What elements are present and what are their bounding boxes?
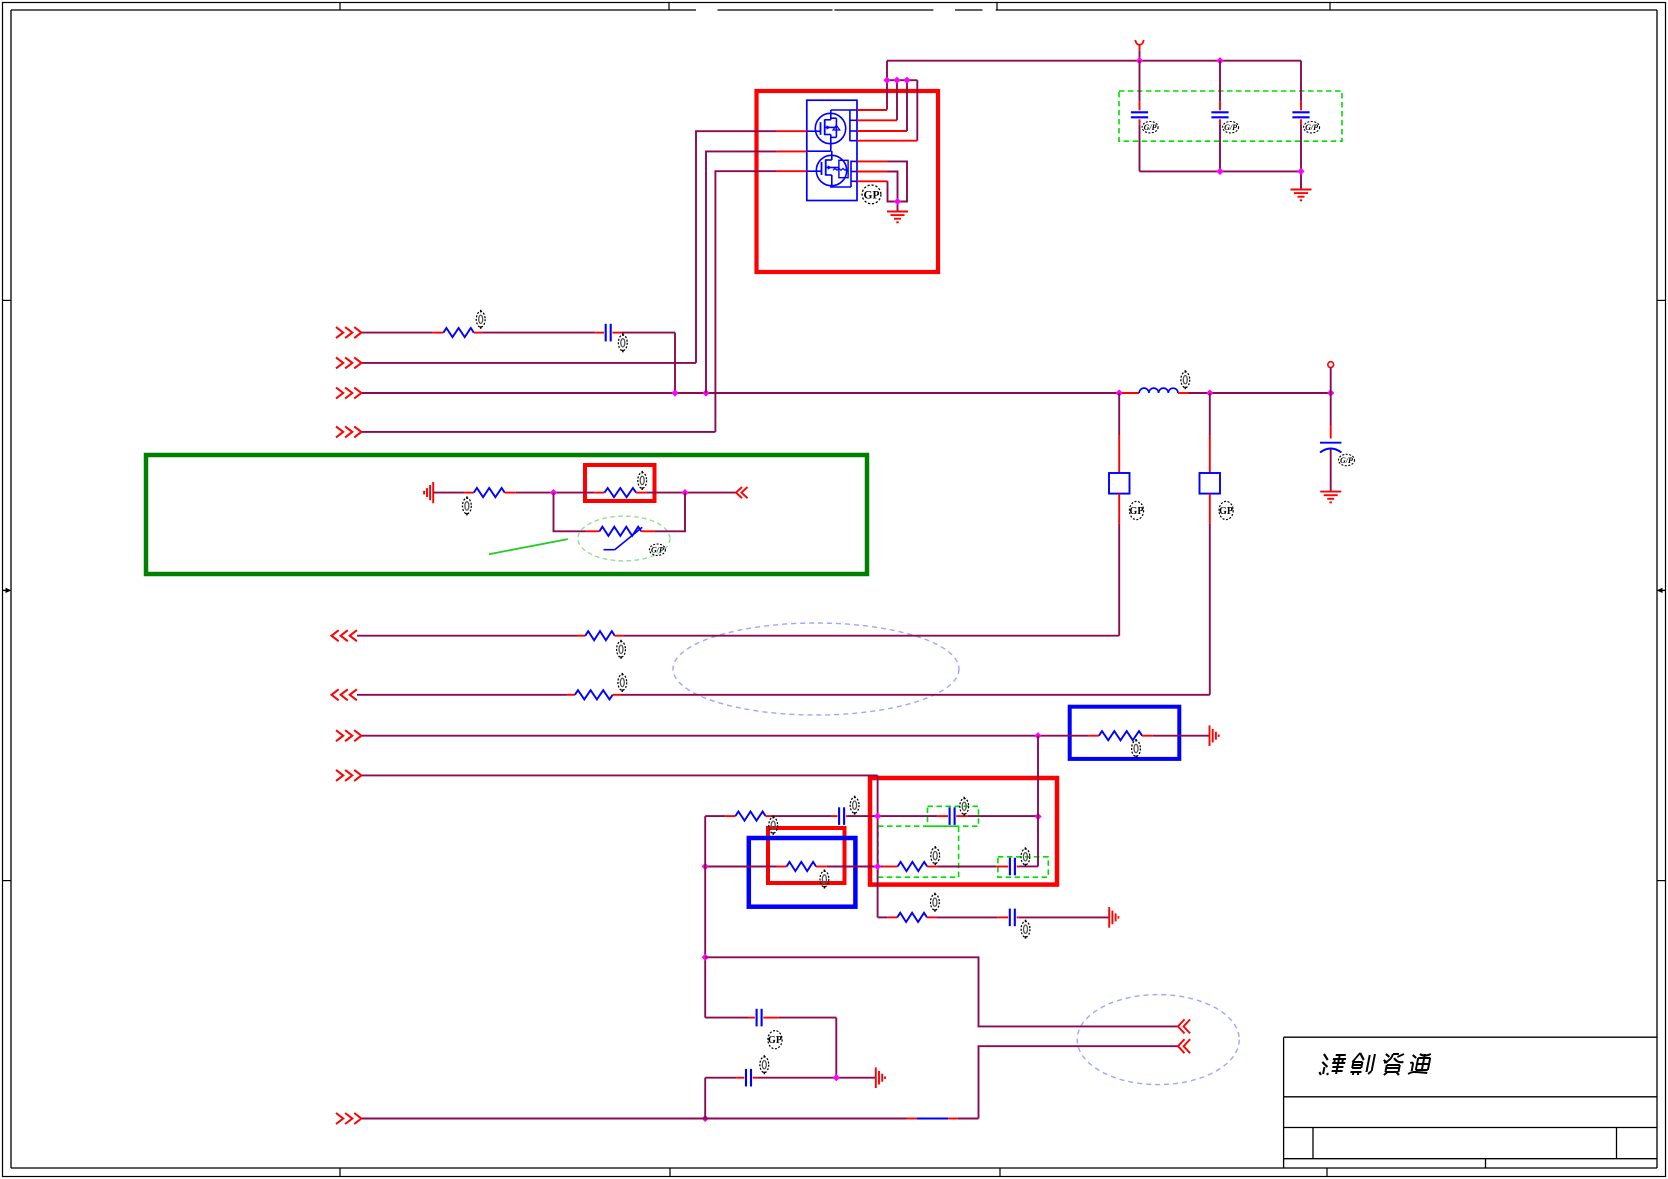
capacitor C3 (bulk)	[1292, 61, 1309, 172]
label C6	[850, 796, 859, 815]
label GP for F1	[1129, 501, 1143, 519]
capacitor C6	[831, 807, 848, 825]
svg-text:G/P: G/P	[1224, 123, 1237, 132]
label R4	[638, 471, 647, 490]
port arrow input row7	[336, 730, 361, 741]
wire row13 (y=1017)	[705, 1018, 836, 1078]
label C9	[1021, 920, 1030, 939]
ground (Q1 source)	[887, 212, 908, 223]
pin stubs right of Q1 lower	[857, 161, 888, 181]
node dot source	[894, 198, 901, 205]
node dots row10	[702, 863, 882, 870]
label R9	[820, 870, 829, 889]
resistor R4 (in red box)	[594, 488, 646, 497]
label C11	[760, 1055, 769, 1074]
node dots green row	[550, 489, 689, 496]
transistor Q1-A (upper mosfet)	[807, 110, 857, 152]
wire row3 right	[1189, 392, 1331, 394]
resistor R8	[725, 812, 771, 821]
node dot row7	[1034, 732, 1041, 739]
wire mosfet drain bus	[887, 80, 917, 141]
port arrow input row4	[336, 426, 361, 437]
label C7	[960, 797, 969, 816]
svg-text:G/P: G/P	[1305, 123, 1318, 132]
resistor R1 (row1)	[432, 328, 482, 337]
label GP for C10	[768, 1031, 782, 1049]
ferrite bead FB1	[907, 1118, 958, 1120]
border center arrow right	[1657, 588, 1667, 593]
highlight red box around MOSFET pair	[757, 91, 939, 272]
company logo text 緯創資通	[1319, 1053, 1431, 1075]
svg-text:G/P: G/P	[1340, 456, 1353, 465]
label GP (Q1 ground)	[862, 185, 881, 204]
svg-text:GP: GP	[1130, 506, 1144, 517]
component F2 (square)	[1200, 393, 1221, 695]
wire Q1 source to ground	[888, 161, 908, 211]
capacitor C10	[749, 1009, 779, 1027]
label G/P for RT1	[649, 544, 665, 555]
label R3	[463, 496, 472, 515]
resistor R3 (green box)	[464, 488, 516, 497]
resistor R11	[888, 913, 937, 922]
border zone ticks top	[340, 2, 1330, 10]
port arrow input row1	[336, 327, 361, 338]
inductor L1	[1122, 388, 1188, 393]
wire row11 (y=917)	[878, 916, 1110, 918]
label L1	[1181, 370, 1190, 389]
node dots row3	[671, 389, 709, 396]
highlight blue box (inner RC)	[749, 838, 856, 907]
capacitor C1 (bulk)	[1131, 61, 1148, 172]
port arrow input row2	[336, 357, 361, 368]
wire row8 and riser	[362, 775, 878, 917]
port arrow output row6	[332, 689, 357, 700]
pin stubs right of Q1 upper	[857, 110, 917, 141]
wire row12 (y=957)	[705, 957, 1178, 1026]
wire left drop x705	[704, 816, 706, 1018]
capacitor C5 (polarized)	[1320, 393, 1341, 492]
label G/P for C1	[1142, 122, 1158, 133]
resistor R7 (in blue box)	[1088, 731, 1153, 740]
ground (row14 right)	[876, 1067, 885, 1088]
highlight red box (feedback RC network)	[870, 778, 1057, 885]
port arrow out A	[1178, 1019, 1190, 1033]
wire row10 (y=866)	[705, 866, 996, 868]
border zone ticks left	[2, 300, 11, 880]
port arrow input row3	[336, 388, 361, 399]
resistor R10 (dashed option)	[884, 862, 938, 871]
connector pin P1	[1328, 362, 1334, 393]
capacitor C8 (dashed option)	[996, 858, 1019, 876]
node dots x705	[702, 954, 709, 1122]
wire row6	[357, 694, 1210, 696]
ground (row11 right)	[1109, 907, 1118, 928]
node dots top rail	[1136, 57, 1224, 64]
annotation ellipse (thermistor, pale green)	[578, 516, 670, 561]
svg-text:G/P: G/P	[651, 546, 664, 555]
wire cap ground bus	[1140, 171, 1302, 189]
port arrow out B	[1178, 1039, 1190, 1053]
annotation leader line (green)	[489, 539, 568, 554]
wire row5	[357, 635, 1119, 637]
wire row15	[362, 1046, 1178, 1118]
node dots drain bus	[883, 77, 910, 84]
port arrow output row5	[332, 630, 357, 641]
node dot row14	[833, 1074, 840, 1081]
label C4	[618, 333, 627, 352]
node dots cap bus	[1216, 168, 1304, 175]
wire row2 to Q1 gate	[362, 131, 776, 363]
node dots row3 right	[1116, 389, 1335, 396]
capacitor C9	[998, 909, 1019, 927]
annotation ellipse (bottom right, dashed blue)	[1077, 995, 1239, 1085]
thermistor RT1	[586, 527, 654, 550]
wire green row	[433, 492, 736, 494]
wire thermistor branch	[554, 493, 686, 532]
ground (C5)	[1320, 492, 1341, 503]
border zone ticks right	[1657, 300, 1666, 880]
label G/P for C5	[1339, 454, 1355, 465]
label R5	[617, 640, 626, 659]
annotation ellipse (mid, dashed blue)	[673, 623, 959, 715]
border center arrow left	[2, 588, 12, 593]
svg-text:GP: GP	[864, 189, 880, 201]
ground (row7 right)	[1210, 725, 1219, 746]
capacitor C11	[736, 1069, 758, 1087]
node dots row9	[874, 813, 1042, 821]
highlight red box R_small in green section	[585, 465, 655, 501]
option dashed box (cap C_fb2)	[998, 857, 1048, 877]
wire top rail	[887, 61, 1301, 80]
mosfet package box Q1	[807, 100, 857, 200]
option dashed box (res R_fb)	[878, 826, 959, 877]
resistor R5	[577, 631, 623, 640]
ground (top rail)	[1291, 190, 1312, 201]
label R7	[1132, 739, 1141, 758]
title block frame	[1284, 1037, 1657, 1168]
capacitor C7 (dashed option)	[937, 807, 967, 825]
power port VIN	[1135, 40, 1144, 61]
border zone ticks bottom	[340, 1168, 1327, 1177]
highlight red box (inner RC)	[768, 828, 845, 883]
wire row3	[362, 392, 1122, 394]
label G/P for C3	[1304, 122, 1320, 133]
highlight blue box (termination resistor)	[1070, 707, 1180, 759]
power symbol (green section)	[424, 482, 433, 503]
resistor R9	[777, 862, 827, 871]
label R11	[931, 893, 940, 912]
wire row1	[362, 333, 675, 393]
wire row14 (y=1078)	[705, 1078, 876, 1119]
label R10	[931, 846, 940, 865]
label R1	[476, 310, 485, 329]
label G/P for C2	[1223, 122, 1239, 133]
wire riser x1038	[1020, 736, 1039, 867]
wire row7	[362, 735, 1210, 737]
wire row3 riser to Q1 mid	[706, 151, 776, 393]
label GP for F2	[1219, 501, 1233, 519]
pin stubs left of Q1	[776, 131, 807, 171]
port arrow (green row out)	[736, 487, 748, 498]
label C8	[1021, 847, 1030, 866]
port arrow input row8	[336, 770, 361, 781]
label R6	[618, 673, 627, 692]
svg-text:G/P: G/P	[1144, 123, 1157, 132]
resistor R6	[567, 690, 621, 699]
svg-text:GP: GP	[768, 1035, 782, 1046]
option dashed box (cap C_fb1)	[928, 806, 979, 826]
highlight green box (input filter section)	[146, 455, 867, 574]
transistor Q1-B (lower mosfet)	[807, 151, 857, 187]
port arrow input row15	[336, 1113, 361, 1124]
capacitor C4 (row1)	[595, 324, 621, 342]
svg-text:GP: GP	[1219, 506, 1233, 517]
capacitor C2 (bulk)	[1211, 61, 1228, 172]
option dashed box (bulk caps)	[1119, 91, 1342, 141]
component F1 (square)	[1109, 393, 1130, 636]
wire row9 (y=816)	[705, 815, 1038, 817]
label R8	[769, 816, 778, 835]
wire row4 to Q1 gate2	[362, 171, 776, 432]
